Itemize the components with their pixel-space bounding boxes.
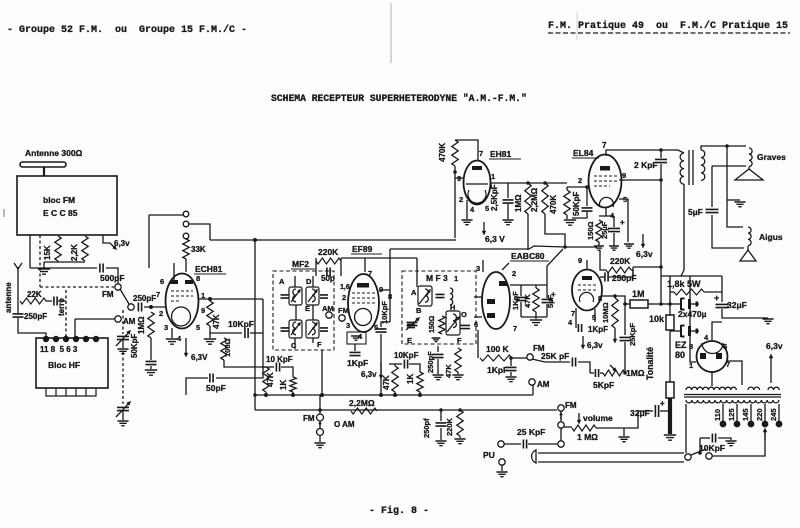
wire 250pf stem xyxy=(440,410,442,421)
capacitor MF2 bottom left xyxy=(281,328,289,331)
wire 2.5KpF stem xyxy=(507,183,509,198)
svg-text:Tonalité: Tonalité xyxy=(645,347,655,380)
resistor 47K EABC80 xyxy=(533,288,539,312)
svg-text:47K: 47K xyxy=(444,364,453,378)
resistor 220K triode xyxy=(606,267,631,273)
node volume in xyxy=(558,422,564,428)
ground fmam xyxy=(314,443,325,448)
resistor 47K MF3 xyxy=(455,348,461,372)
svg-text:10 KpF: 10 KpF xyxy=(266,355,293,364)
coil MF3 primary xyxy=(425,289,428,302)
arrow heater triode xyxy=(582,336,585,348)
svg-text:1 MΩ: 1 MΩ xyxy=(577,432,598,442)
MF3 primary can xyxy=(418,286,432,306)
capacitor 10KpF EF89 xyxy=(376,329,387,332)
node tone xyxy=(623,371,627,375)
svg-text:- Fig. 8 -: - Fig. 8 - xyxy=(369,505,429,517)
svg-text:110: 110 xyxy=(713,409,722,421)
wire aigus coil to cone xyxy=(747,246,749,250)
svg-text:220K: 220K xyxy=(610,256,631,266)
tube EH81 xyxy=(464,161,491,205)
wire graves coil to cone xyxy=(748,167,750,170)
ground g3 EL84 xyxy=(624,244,634,248)
resistor 10M xyxy=(612,298,618,328)
wire MF3 to diode 1 xyxy=(474,296,482,298)
svg-text:145: 145 xyxy=(741,408,750,421)
wire 5uF leads xyxy=(546,285,548,298)
svg-text:F.M. Pratique 49 ou F.M./C P: F.M. Pratique 49 ou F.M./C Pratique 15 xyxy=(548,20,788,32)
node AM bus sw xyxy=(317,429,324,436)
svg-text:2,5KpF: 2,5KpF xyxy=(490,184,499,211)
wire pin7 drop xyxy=(364,258,366,272)
wire 47K to L1 xyxy=(265,392,267,395)
wire tap 220 xyxy=(764,404,766,421)
wire 47K MF3 gnd xyxy=(457,372,459,374)
resistor 1M grid xyxy=(148,312,154,338)
wire osc switch feed xyxy=(149,214,183,216)
dipole stem xyxy=(43,167,45,176)
wire AM to bloc HF xyxy=(75,318,115,320)
box MF2 dashed xyxy=(273,271,334,350)
node tap 110 xyxy=(720,421,727,428)
wire MF2 A up xyxy=(294,276,296,287)
wire 5KpF out xyxy=(600,372,603,374)
ground 150 EL84 xyxy=(594,246,604,250)
node mains cap xyxy=(698,451,702,455)
wire vol to 25KpF xyxy=(560,428,562,441)
EL84 electrode xyxy=(600,166,610,171)
svg-text:32μF: 32μF xyxy=(630,408,650,418)
wire 50pF branch xyxy=(216,333,263,378)
node speaker branch xyxy=(725,144,729,148)
wire MF2 C link xyxy=(295,305,297,320)
node 220K bus xyxy=(458,408,462,412)
svg-text:10KpF: 10KpF xyxy=(228,319,254,329)
wire 250pF left xyxy=(600,276,604,278)
svg-text:9: 9 xyxy=(622,171,626,180)
bus L2 xyxy=(255,409,557,411)
wire rail below 10k xyxy=(669,330,671,382)
ground 470K EL84 xyxy=(564,220,576,225)
svg-text:80: 80 xyxy=(675,350,685,360)
wire ECH81 anode xyxy=(198,298,263,300)
svg-text:15K: 15K xyxy=(43,245,52,260)
wire 1M out xyxy=(648,303,661,305)
wire mains cap right xyxy=(718,438,731,440)
wire EZ80 bottom lead xyxy=(711,372,713,386)
box Bloc HF xyxy=(36,338,108,388)
svg-text:2: 2 xyxy=(159,309,163,318)
wire 47K EABC80 top xyxy=(535,285,537,288)
node 1K L1 xyxy=(291,393,295,397)
ground 1KpF det xyxy=(505,377,516,382)
svg-text:bloc FM: bloc FM xyxy=(43,195,75,205)
svg-text:E: E xyxy=(305,304,310,313)
svg-text:3: 3 xyxy=(164,323,168,332)
resistor 150 EL84 xyxy=(596,220,602,242)
wire EABC80 rail to node xyxy=(547,249,563,285)
EF89 electrode xyxy=(357,283,369,288)
pin dot bloc HF 2 xyxy=(53,336,59,342)
wire 470K EL84 leads xyxy=(566,187,568,190)
arrow fm vol xyxy=(560,413,562,420)
svg-text:220: 220 xyxy=(755,408,764,421)
wire terre dashed xyxy=(65,290,67,338)
wire triode anode xyxy=(601,295,615,297)
EZ80 plates xyxy=(700,353,706,359)
transformer primary xyxy=(686,387,736,390)
arrow volume pot xyxy=(578,413,581,423)
EH81 electrode xyxy=(472,166,482,170)
svg-text:2x470µ: 2x470µ xyxy=(678,309,707,319)
wire 32uF lead xyxy=(638,410,653,412)
capacitor 25KpF PU xyxy=(523,440,526,449)
wire 150 gnd xyxy=(598,242,600,246)
wire 1M bottom xyxy=(527,214,529,250)
svg-text:EZ: EZ xyxy=(675,340,687,350)
node bus 240 drop xyxy=(253,238,257,242)
wire EZ80 cathode xyxy=(712,322,722,341)
node MF2 F L1 xyxy=(320,393,324,397)
node rail 470u xyxy=(668,302,672,306)
svg-text:50KpF: 50KpF xyxy=(572,191,581,216)
switch mains right xyxy=(706,453,712,459)
wire 250pF MF3 gnd xyxy=(437,359,439,374)
wire pin3 gnd stem xyxy=(171,328,173,338)
switch contact 3 xyxy=(183,233,189,239)
wire 32uF res stem xyxy=(721,276,723,302)
svg-text:10k: 10k xyxy=(649,314,665,324)
wire 1.8k right xyxy=(704,291,722,293)
svg-text:F: F xyxy=(317,340,322,349)
wire 15K lead xyxy=(57,261,59,262)
arrow MF3 varcap xyxy=(406,318,419,330)
capacitor 5uF EABC80 xyxy=(542,299,553,302)
wire 50KpF stem xyxy=(586,187,588,206)
wire screen riser xyxy=(389,249,391,322)
svg-text:250pf: 250pf xyxy=(422,418,431,438)
svg-text:3: 3 xyxy=(476,264,480,273)
EF89 cathode box xyxy=(347,332,366,344)
wire 47K top stub xyxy=(262,366,266,368)
EH81 cathode arc xyxy=(468,190,486,203)
wire fm vol stub xyxy=(560,411,562,421)
speaker coil Aigus xyxy=(748,227,751,246)
ground stem bloc FM xyxy=(43,262,45,268)
node screen 1M xyxy=(659,302,663,306)
scan artifact fold line xyxy=(390,3,392,63)
wire graves return xyxy=(712,165,746,167)
wire 250pF to grid xyxy=(144,306,166,308)
arrow varcap 1 xyxy=(116,331,130,346)
EZ80 cathode cup xyxy=(702,343,723,354)
ground MF3 internal xyxy=(432,338,441,342)
svg-text:Aigus: Aigus xyxy=(759,232,783,242)
node 47K2 L1 xyxy=(393,393,397,397)
wire triode pin5 stub xyxy=(594,309,596,322)
node FM det xyxy=(527,354,533,360)
speaker coil Graves xyxy=(749,148,752,167)
variable capacitor MF3 xyxy=(407,322,418,325)
wire 470u-2 right xyxy=(691,330,699,332)
arrow MF2 primary top xyxy=(291,290,300,302)
wire 33K to tube xyxy=(185,259,187,272)
svg-text:FM: FM xyxy=(338,306,349,315)
wire 2KpF top xyxy=(660,150,662,158)
ground varcap 1 xyxy=(117,349,128,354)
svg-text:Antenne 300Ω: Antenne 300Ω xyxy=(25,148,83,158)
resistor 33K xyxy=(183,239,189,259)
node 1K2 L1 xyxy=(418,393,422,397)
svg-text:+: + xyxy=(620,218,625,227)
speaker cone Graves xyxy=(735,169,763,180)
svg-text:32μF: 32μF xyxy=(727,300,747,310)
svg-text:9: 9 xyxy=(201,306,205,315)
arrow fm am xyxy=(319,422,321,428)
MF2 bottom secondary can xyxy=(306,320,319,338)
capacitor 50KpF xyxy=(146,361,157,364)
ground rail xyxy=(664,435,676,440)
svg-text:220K: 220K xyxy=(445,417,454,436)
arrow 6.3v xyxy=(110,243,116,249)
output transformer primary xyxy=(680,153,684,184)
wire 220K left xyxy=(600,250,606,270)
wire 470K bottom xyxy=(454,166,456,238)
wire B+ drop 690 xyxy=(690,276,696,362)
svg-text:1MΩ: 1MΩ xyxy=(626,368,645,378)
svg-text:MF2: MF2 xyxy=(292,259,309,269)
output transformer core xyxy=(689,150,693,185)
wire 250pF right xyxy=(609,276,633,278)
box bloc FM ECC85 xyxy=(17,176,117,235)
wire 250pF MF3 xyxy=(437,346,439,352)
wire cap to 1K xyxy=(281,367,293,377)
capacitor MF3 bottom xyxy=(460,325,470,328)
capacitor MF3 top xyxy=(436,294,445,297)
wire screen top xyxy=(390,246,565,249)
resistor 1K screen2 xyxy=(417,372,423,392)
arrow heater EL84 xyxy=(642,234,645,247)
svg-text:1,8k 5W: 1,8k 5W xyxy=(667,279,701,289)
wire MF2 F down xyxy=(321,350,323,395)
capacitor 5uF crossover xyxy=(706,209,719,212)
svg-text:antenne: antenne xyxy=(4,282,13,313)
coil MF2 primary top xyxy=(293,289,296,302)
capacitor 250pF grid xyxy=(138,303,141,312)
node FM MF2 xyxy=(339,315,345,321)
wire EABC80 label tick xyxy=(502,263,509,270)
wire 25uF stem xyxy=(613,216,615,227)
arrow heater ECH81 xyxy=(185,338,188,356)
wire EABC80 top feed xyxy=(510,284,547,286)
triode grid dashes xyxy=(578,285,596,290)
wire 500pF to FM switch xyxy=(106,268,118,284)
capacitor 25uF EL84 xyxy=(608,228,620,231)
svg-text:7: 7 xyxy=(571,309,575,318)
arrow heater EZ80 xyxy=(770,355,773,383)
switch mains left xyxy=(685,454,691,460)
wire anode corner xyxy=(262,299,264,333)
tube EABC80 triode xyxy=(572,270,602,311)
wire 2.5KpF gnd xyxy=(507,204,509,219)
capacitor MF2 top right xyxy=(320,295,328,298)
svg-text:150Ω: 150Ω xyxy=(429,315,436,333)
ground bloc FM xyxy=(38,269,50,274)
svg-text:2: 2 xyxy=(512,269,516,278)
wire 220K to rail xyxy=(633,266,661,268)
wire 2.2M bottom xyxy=(545,214,597,247)
resistor 220K EF89 xyxy=(316,258,341,264)
resistor 470K EL84 xyxy=(564,190,570,215)
svg-text:+: + xyxy=(551,290,556,299)
svg-text:250pF: 250pF xyxy=(133,294,156,303)
node anode xyxy=(613,294,617,298)
bloc HF bottom tabs xyxy=(46,388,96,396)
node 250pf bus xyxy=(439,408,443,412)
svg-text:D: D xyxy=(306,277,312,286)
svg-text:volume: volume xyxy=(583,413,613,423)
resistor 47K ECH81 xyxy=(207,301,213,326)
wire gnd volume stem xyxy=(623,428,625,436)
svg-text:AM: AM xyxy=(322,304,334,313)
resistor 1M box xyxy=(630,300,648,308)
wire 1K to L1 xyxy=(292,392,294,395)
wire mains cap xyxy=(700,437,710,439)
pin dot bloc HF 5 xyxy=(83,336,89,342)
bus L1 xyxy=(255,394,533,396)
wire bloc FM pin left xyxy=(29,235,31,268)
wire 470K EL84 bottom xyxy=(566,215,568,219)
resistor 47K screen2 xyxy=(392,366,398,392)
ground EF89 cathode xyxy=(351,336,361,340)
svg-text:10KpF: 10KpF xyxy=(699,443,725,453)
resistor 1K screen xyxy=(290,377,296,392)
wire 32uF to rail xyxy=(660,410,670,412)
node 25KpF left xyxy=(498,441,504,447)
coil MF2 secondary top xyxy=(312,289,315,302)
pin dot bloc HF 3 xyxy=(63,336,69,342)
capacitor 1KpF EABC80 xyxy=(516,297,527,300)
transformer core lines xyxy=(684,395,781,398)
wire bloc FM AM link dashed xyxy=(39,235,41,287)
ground volume xyxy=(618,437,629,442)
wire mains select xyxy=(712,432,765,456)
svg-text:2: 2 xyxy=(342,293,346,302)
wire 470u-1 lead xyxy=(670,303,681,305)
wire crossover left xyxy=(711,166,713,207)
svg-text:1: 1 xyxy=(491,172,495,181)
node tap 220 xyxy=(762,421,769,428)
underline EH81 xyxy=(489,158,521,160)
ground PU xyxy=(496,472,507,477)
resistor 220K bus xyxy=(457,410,463,436)
wire cathode split xyxy=(599,215,614,217)
svg-text:1KpF: 1KpF xyxy=(588,325,608,334)
node tap 145 xyxy=(748,421,755,428)
wire 15K 2.2K bottom rail xyxy=(44,261,85,263)
wire tap 145 xyxy=(750,404,752,421)
capacitor 25KpF tone xyxy=(620,337,631,340)
node switch mid xyxy=(128,304,134,310)
wire 500pF feed xyxy=(30,267,97,269)
wire cap2 to 1K xyxy=(409,364,420,372)
resistor 100 xyxy=(221,338,227,360)
resistor volume pot xyxy=(572,425,596,431)
capacitor 50pF AVC xyxy=(210,374,213,383)
underline EL84 xyxy=(572,157,599,159)
capacitor 2.5KpF xyxy=(503,200,514,203)
capacitor MF2 top left xyxy=(281,295,289,298)
gang link dashed xyxy=(122,352,124,404)
wire MF2 F lead xyxy=(312,338,314,343)
node grid junction xyxy=(149,305,153,309)
MF2 top primary can xyxy=(289,287,302,305)
wire 47K bottom xyxy=(209,326,211,338)
ground 250pF MF3 xyxy=(432,375,443,380)
ground 250pf bus xyxy=(435,441,446,446)
wire 25KpF out xyxy=(578,362,590,373)
svg-text:2,2K: 2,2K xyxy=(70,244,79,261)
svg-text:5: 5 xyxy=(374,323,378,332)
wire pin5 g3 xyxy=(619,199,628,242)
wire fmam gnd xyxy=(319,435,321,442)
wire vol to pot xyxy=(564,426,572,428)
svg-text:FM: FM xyxy=(303,414,315,423)
wire PU cap right xyxy=(528,443,558,445)
svg-text:1MΩ: 1MΩ xyxy=(137,316,146,334)
capacitor 2KpF xyxy=(655,159,667,162)
node FM volume xyxy=(558,405,564,411)
svg-text:250pF: 250pF xyxy=(24,312,47,321)
capacitor 10KpF screen xyxy=(276,363,279,372)
svg-text:SCHEMA RECEPTEUR SUPERHETERODY: SCHEMA RECEPTEUR SUPERHETERODYNE "A.M.-F… xyxy=(271,93,527,104)
capacitor 32uF out xyxy=(655,405,658,417)
svg-text:220K: 220K xyxy=(318,247,339,257)
wire EL84 g2 xyxy=(619,179,661,181)
svg-text:FM: FM xyxy=(102,290,114,299)
svg-text:7: 7 xyxy=(513,324,517,333)
svg-text:O: O xyxy=(461,310,467,319)
MF3 secondary can xyxy=(446,311,460,335)
wire MF2 D up xyxy=(312,276,314,287)
svg-text:25µF: 25µF xyxy=(600,221,609,239)
output transformer secondary xyxy=(701,150,705,180)
arrow mains tap xyxy=(764,429,767,440)
capacitor 10KpF ECH81 xyxy=(245,328,248,338)
arrow MF2 secondary bottom xyxy=(308,323,317,335)
wire EL84 cathode xyxy=(605,207,607,216)
capacitor 1KpF det xyxy=(506,367,517,370)
wire pin6 lead xyxy=(173,263,175,280)
resistor 2.2M bus xyxy=(351,408,377,414)
svg-text:10KpF: 10KpF xyxy=(380,301,389,324)
wire 220K frame right xyxy=(340,258,342,276)
capacitor MF2 bottom right xyxy=(320,328,328,331)
arrow MF3 H coil xyxy=(447,317,459,332)
tube EABC80 diodes xyxy=(482,272,510,329)
capacitor 250pF MF3 xyxy=(433,354,444,357)
wire rail gnd xyxy=(668,398,672,434)
bus 240 xyxy=(210,239,456,241)
capacitor 50KpF EL84 xyxy=(582,208,593,211)
capacitor 50pF EF89 xyxy=(327,268,330,277)
svg-text:2: 2 xyxy=(459,195,463,204)
svg-text:5KpF: 5KpF xyxy=(593,380,614,390)
wire 25KpF bottom xyxy=(624,342,626,373)
capacitor 5KpF xyxy=(595,369,598,377)
wire MF3 to diode 2 xyxy=(474,316,482,318)
varcap1 gnd stem xyxy=(122,340,124,348)
